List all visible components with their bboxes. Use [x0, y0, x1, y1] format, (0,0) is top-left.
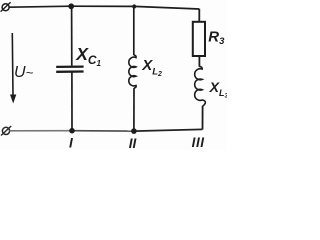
node I top junction: [68, 3, 74, 9]
resistor R3: [193, 22, 205, 56]
svg-text:XL2: XL2: [141, 57, 162, 78]
inductor L3: [195, 66, 206, 106]
svg-text:R3: R3: [208, 28, 225, 47]
svg-text:XC1: XC1: [75, 44, 101, 68]
svg-text:III: III: [192, 135, 205, 150]
bottom wire left segment: [10, 130, 72, 132]
terminal bottom-left: [1, 126, 11, 136]
node I bottom junction: [69, 128, 75, 134]
wire between R3 and L3: [198, 56, 200, 67]
node II top junction: [132, 4, 136, 8]
capacitor C1: [56, 67, 83, 72]
wire branch III lower: [202, 106, 204, 130]
wire branch I upper: [71, 6, 73, 66]
terminal top-left: [1, 2, 11, 11]
svg-text:I: I: [69, 135, 73, 150]
svg-text:II: II: [129, 136, 137, 150]
wire branch I lower: [71, 72, 73, 130]
bottom wire right segment: [134, 129, 202, 131]
inductor L2: [129, 55, 136, 88]
wire branch II upper: [133, 7, 135, 56]
node II bottom junction: [131, 128, 137, 134]
wire branch III top corner: [198, 9, 200, 22]
top wire: [9, 6, 199, 9]
source arrow U~: [10, 33, 16, 104]
svg-text:U~: U~: [14, 64, 34, 81]
bottom wire middle segment: [72, 130, 134, 132]
wire branch II lower: [133, 88, 135, 131]
svg-text:XL3: XL3: [209, 79, 227, 100]
